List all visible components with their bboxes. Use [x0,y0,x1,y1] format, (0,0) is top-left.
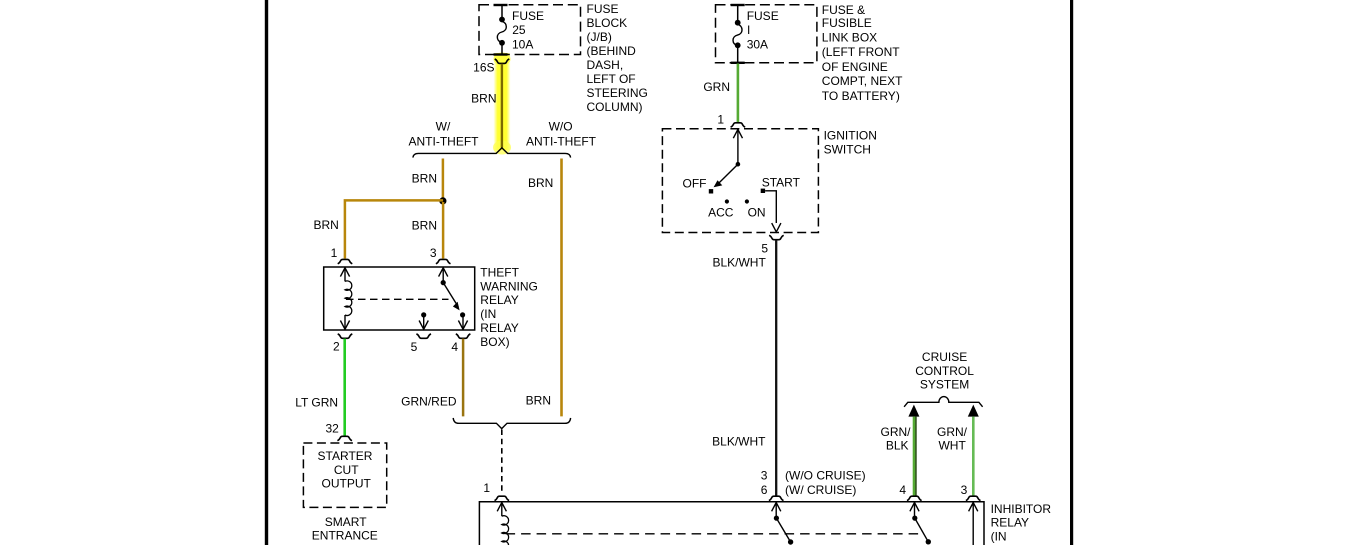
svg-text:3: 3 [961,483,968,497]
relay pin 5 stub [419,312,428,329]
svg-text:RELAY: RELAY [480,321,518,335]
svg-text:W/: W/ [436,119,451,133]
svg-text:3: 3 [430,246,437,260]
label: CRUISE CONTROL SYSTEM [915,350,974,391]
svg-text:BRN: BRN [412,172,437,186]
inhibitor relay coil (pin 1) [497,503,508,545]
svg-text:FUSE: FUSE [512,9,544,23]
svg-text:3: 3 [761,469,768,483]
svg-text:(J/B): (J/B) [587,30,612,44]
brace split (anti-theft options) [413,148,571,158]
label: FUSE & FUSIBLE LINK BOX (LEFT FRONT OF ENGINE COMPT, NEXT TO BATTERY) [822,3,903,103]
svg-text:1: 1 [717,112,724,126]
svg-text:BLK: BLK [886,439,909,453]
relay switch contact (pins 3-4) [439,268,468,330]
svg-text:LT GRN: LT GRN [295,395,338,409]
pin 6 connector [769,496,784,500]
wire GRN/RED (relay pin 4 down) [462,339,465,417]
svg-text:(IN: (IN [480,307,496,321]
pin 32 connector [337,436,352,440]
label GRN/ WHT [937,425,968,453]
label: IGNITION SWITCH [824,129,877,157]
svg-text:WARNING: WARNING [480,279,538,293]
svg-text:RELAY: RELAY [480,293,518,307]
svg-text:1: 1 [483,481,490,495]
svg-text:CONTROL: CONTROL [915,364,974,378]
svg-text:WHT: WHT [938,439,966,453]
relay coil (pins 1-2) [340,268,351,330]
svg-text:CRUISE: CRUISE [922,350,967,364]
svg-text:W/O: W/O [549,120,573,134]
fuse I 30A [731,5,779,63]
label: THEFT WARNING RELAY (IN RELAY BOX) [480,265,538,349]
fuse 25 10A [494,5,545,55]
svg-text:SWITCH: SWITCH [824,142,871,156]
arrow to cruise (right) [968,405,979,417]
svg-text:30A: 30A [747,38,768,52]
svg-text:5: 5 [411,340,418,354]
pin 5 connector [769,235,784,239]
wire BRN left branch [442,159,445,201]
svg-text:4: 4 [451,340,458,354]
label: FUSE BLOCK (J/B) (BEHIND DASH, LEFT OF STEERING COLUMN) [587,2,648,114]
wire BLK/WHT (ignition to inhibitor relay) [775,240,777,496]
svg-text:(BEHIND: (BEHIND [587,44,637,58]
svg-text:FUSIBLE: FUSIBLE [822,16,872,30]
pin 2 connector [338,334,353,338]
label GRN/ BLK [881,425,912,453]
svg-text:32: 32 [325,421,339,435]
pin 4 connector [456,334,471,338]
svg-text:STARTER: STARTER [318,449,373,463]
svg-text:OF ENGINE: OF ENGINE [822,60,888,74]
ACC position [725,199,729,203]
fuse &amp; fusible link dashed box [716,5,817,63]
inhibitor relay box [479,502,984,545]
svg-text:IGNITION: IGNITION [824,129,877,143]
inhibitor internal dashed link [506,533,920,535]
svg-text:SMART: SMART [325,515,367,529]
svg-text:THEFT: THEFT [480,265,519,279]
svg-text:GRN: GRN [703,80,730,94]
wire BRN (w/o anti-theft branch) [560,159,563,417]
inhibitor switch contact (pin 4) [910,503,931,545]
svg-text:BLK/WHT: BLK/WHT [712,435,766,449]
svg-text:BRN: BRN [526,393,551,407]
highlighted wire glow (yellow) [493,53,511,155]
splice junction [439,197,446,204]
wire GRN/BLK [914,417,916,496]
svg-text:SYSTEM: SYSTEM [920,378,969,392]
ignition switch contact [709,129,743,193]
label: INHIBITOR RELAY (IN [991,502,1052,544]
pin 1 connector [495,496,510,500]
pin 5 connector [416,334,431,338]
svg-text:4: 4 [899,483,906,497]
dashed wire to inhibitor pin 1 [501,430,503,494]
svg-text:FUSE: FUSE [587,2,619,16]
label W/ ANTI-THEFT [409,119,480,148]
pin 3 connector [436,259,451,263]
fuse block (J/B) dashed box [479,5,581,55]
svg-text:GRN/: GRN/ [937,425,968,439]
relay internal dashed link [346,298,449,300]
svg-text:(IN: (IN [991,529,1007,543]
wire LT GRN (pin 2 to starter cut output) [343,339,346,436]
inhibitor switch contact (pin 6) [772,503,794,545]
inhibitor pin 3 stub [969,503,978,545]
svg-text:DASH,: DASH, [587,58,624,72]
svg-text:BOX): BOX) [480,335,509,349]
svg-text:BLK/WHT: BLK/WHT [712,255,766,269]
svg-text:RELAY: RELAY [991,516,1029,530]
wire BRN horizontal to pin 1 [345,200,443,258]
svg-text:OUTPUT: OUTPUT [322,476,372,490]
svg-text:(W/ CRUISE): (W/ CRUISE) [785,483,856,497]
wire BRN (highlighted, fuse block to splice) [501,64,503,148]
svg-text:TO BATTERY): TO BATTERY) [822,89,900,103]
svg-text:6: 6 [761,483,768,497]
svg-text:COMPT, NEXT: COMPT, NEXT [822,74,903,88]
svg-text:FUSE: FUSE [747,9,779,23]
svg-text:I: I [747,23,750,37]
svg-text:1: 1 [331,246,338,260]
svg-text:CUT: CUT [334,463,359,477]
label W/O ANTI-THEFT [526,120,597,149]
svg-text:STEERING: STEERING [587,86,648,100]
svg-text:ENTRANCE: ENTRANCE [312,528,378,542]
brace gather (cruise control) [904,397,983,407]
START position [761,189,765,193]
pin 4 connector [907,496,922,500]
svg-text:GRN/RED: GRN/RED [401,395,457,409]
ignition switch dashed box [662,129,818,233]
brace merge (to inhibitor relay pin 1) [453,418,570,429]
svg-text:COLUMN): COLUMN) [587,100,643,114]
svg-text:(W/O CRUISE): (W/O CRUISE) [785,469,866,483]
wire GRN (fuse to ignition switch) [737,64,740,123]
svg-text:ON: ON [748,206,766,220]
svg-text:(LEFT FRONT: (LEFT FRONT [822,45,900,59]
connector 16S [473,59,509,75]
svg-text:BRN: BRN [471,92,496,106]
svg-text:10A: 10A [512,38,533,52]
wire start to pin 5 [765,191,776,223]
svg-text:16S: 16S [473,61,494,75]
svg-text:BRN: BRN [313,218,338,232]
svg-text:FUSE &: FUSE & [822,3,865,17]
svg-text:LINK BOX: LINK BOX [822,31,877,45]
svg-text:2: 2 [333,339,340,353]
svg-text:25: 25 [512,23,526,37]
ON position [745,199,749,203]
svg-text:ANTI-THEFT: ANTI-THEFT [526,135,597,149]
arrow to cruise (left) [908,405,919,417]
theft warning relay box [324,267,475,330]
starter cut output dashed box [303,443,386,507]
svg-text:ACC: ACC [708,206,734,220]
svg-text:LEFT OF: LEFT OF [587,72,636,86]
wire BRN junction to pin 3 [442,202,445,259]
svg-text:BLOCK: BLOCK [587,16,628,30]
wire GRN/WHT [972,417,975,496]
pin 1 connector [731,123,746,127]
svg-text:GRN/: GRN/ [881,425,912,439]
svg-text:OFF: OFF [683,177,707,191]
pin 3 connector [966,496,981,500]
label: STARTER CUT OUTPUT [318,449,373,490]
svg-text:ANTI-THEFT: ANTI-THEFT [409,135,480,149]
svg-text:BRN: BRN [528,176,553,190]
svg-text:BRN: BRN [412,219,437,233]
svg-text:START: START [762,175,801,189]
svg-text:5: 5 [761,241,768,255]
pin 1 connector [338,259,353,263]
label: SMART ENTRANCE [312,515,378,542]
svg-text:INHIBITOR: INHIBITOR [991,502,1052,516]
